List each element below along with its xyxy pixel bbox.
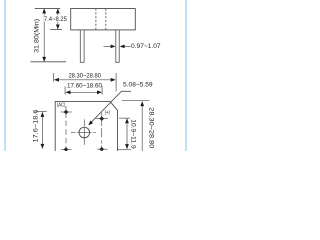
right lead	[116, 30, 119, 62]
arrow down 10.9~11.9	[125, 144, 129, 149]
arrow up 28.30~28.80 vertical	[140, 101, 144, 106]
dimension 7.4~8.25 line	[57, 9, 59, 29]
dim 0.97~1.07 right tail	[125, 45, 131, 47]
extension line body bottom left	[50, 28, 62, 30]
ext line top of dim 28.30~28.80 vertical	[122, 100, 150, 102]
hole centerline horizontal left dash	[71, 132, 75, 134]
svg-text:7.4~8.25: 7.4~8.25	[44, 16, 67, 23]
arrow left 17.60~18.60	[66, 90, 71, 94]
dim line 28.30~28.80 horizontal	[54, 79, 115, 81]
arrow up 7.4~8.25	[56, 8, 60, 13]
arrow left 0.97	[120, 45, 125, 49]
dimension 31.80(Min) line	[43, 9, 45, 61]
left blue table border	[4, 0, 6, 151]
lead TR diamond	[99, 116, 104, 121]
lead BL cross vertical	[65, 146, 67, 151]
svg-text:28.30~28.80: 28.30~28.80	[148, 107, 155, 149]
lead TL cross horizontal	[61, 111, 72, 113]
arrow up 31.80	[42, 8, 46, 13]
right blue table border	[185, 0, 187, 151]
hole centerline vertical bottom dash	[83, 138, 85, 145]
ext line top of dim 10.9~11.9	[119, 117, 130, 119]
centerline TL to BL dashed	[65, 121, 67, 147]
extension line top	[35, 7, 61, 9]
svg-text:17.60~18.60: 17.60~18.60	[67, 83, 102, 90]
dashed internal line 2	[105, 9, 107, 30]
body square outline with chamfered corner	[55, 101, 117, 151]
svg-text:0.97~1.07: 0.97~1.07	[131, 43, 161, 50]
lead TL cross vertical	[65, 106, 67, 118]
ext line bottom of dim 10.9~11.9	[118, 149, 131, 151]
svg-text:(AC): (AC)	[57, 103, 66, 109]
hole leader line	[89, 91, 131, 124]
lead BR cross vertical	[101, 146, 103, 152]
ext line top of dim 17.6~18.6 vertical	[36, 111, 47, 113]
arrow right 17.60~18.60	[97, 90, 102, 94]
ext line right of dim 17.60~18.60	[101, 86, 103, 94]
hole centerline horizontal middle	[77, 132, 91, 134]
svg-text:5.08~5.59: 5.08~5.59	[123, 82, 153, 89]
svg-text:28.30~28.80: 28.30~28.80	[68, 73, 101, 80]
centerline TR to BR dashed	[101, 128, 103, 143]
lead TR cross horizontal	[96, 118, 108, 120]
body outline rectangle	[71, 9, 136, 30]
extension line lead bottom	[31, 61, 67, 63]
label 7.4~8.25 background	[44, 15, 67, 21]
svg-text:17.6~18.6: 17.6~18.6	[33, 109, 40, 143]
dim line 28.30~28.80 vertical	[141, 101, 143, 151]
lead BR cross horizontal	[97, 148, 108, 150]
ext line left of dim 17.60~18.60	[64, 86, 66, 94]
lead BL diamond	[64, 147, 69, 151]
arrow down 31.80	[42, 57, 46, 62]
lead TR cross vertical	[101, 113, 103, 126]
arrow down 17.6~18.6	[41, 144, 45, 149]
svg-text:31.80(Min): 31.80(Min)	[34, 19, 41, 53]
hole leader arrowhead	[88, 121, 93, 126]
dim 0.97~1.07 left tail	[104, 45, 111, 47]
arrow right 0.97	[111, 45, 116, 49]
arrow right 28.30~28.80	[111, 78, 116, 82]
left lead	[80, 30, 84, 62]
lead BR diamond	[99, 147, 104, 152]
lead TL diamond	[64, 110, 69, 115]
arrow up 10.9~11.9	[125, 118, 129, 123]
svg-text:(+): (+)	[105, 110, 111, 116]
svg-text:10.9~11.9: 10.9~11.9	[129, 119, 136, 149]
ext line left of dim 28.30~28.80 horizontal	[53, 73, 55, 81]
hole centerline horizontal right dash	[93, 132, 96, 134]
arrow up 17.6~18.6	[41, 112, 45, 117]
dim line 10.9~11.9	[126, 119, 128, 149]
dim line 17.6~18.6 vertical	[41, 112, 43, 148]
hole centerline vertical middle	[83, 127, 85, 138]
ext line right of dim 28.30~28.80 horizontal	[115, 73, 117, 91]
lead BL cross horizontal	[61, 149, 72, 151]
dashed internal line 1	[95, 9, 97, 30]
arrow down 7.4~8.25	[56, 25, 60, 30]
dim line 17.60~18.60	[66, 91, 102, 93]
arrow left 28.30~28.80	[54, 78, 59, 82]
hole centerline vertical top dash	[83, 119, 85, 126]
mounting hole circle	[79, 127, 90, 138]
